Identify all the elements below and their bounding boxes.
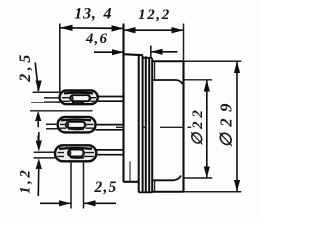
shell front face [151, 58, 153, 191]
pin 2 (middle contact, glass bead) [58, 117, 96, 132]
pin 3 right wire [96, 150, 123, 155]
cavity bore bottom line Ø22 [153, 176, 182, 181]
dimension 13,4 right arrowhead [112, 25, 124, 31]
pin 1 stub lower edge extension [31, 101, 54, 103]
flange washer line 1 [142, 56, 144, 193]
flange top edge [143, 57, 152, 59]
dimension 2,5 (left) lower arrow tail dashes [37, 121, 39, 140]
extension line at pin tip x=59.8 [59, 24, 61, 94]
cavity bore front wall bottom [154, 180, 156, 192]
svg-text:12,2: 12,2 [138, 7, 171, 23]
extension line pin1 top [33, 91, 60, 93]
insulator header rear edge [138, 55, 140, 192]
svg-text:4,6: 4,6 [85, 31, 108, 47]
dimension 12,2 left arrowhead [124, 27, 136, 33]
dimension 13,4 line [60, 27, 124, 30]
dimension 1,2 lower arrow pointing up [36, 158, 42, 169]
svg-text:∅22: ∅22 [190, 106, 206, 145]
svg-text:2,5: 2,5 [17, 51, 34, 83]
dimension 1,2 upper arrow pointing down [38, 132, 40, 141]
pin 3 left wire stub (pin tip) [34, 152, 55, 158]
dimension 12,2 right arrowhead [172, 27, 184, 33]
cavity bore front wall top [154, 62, 156, 81]
centerline axis [116, 126, 191, 128]
shell rear rim edge (also 12,2 extension) [183, 24, 185, 62]
pin 2 left wire stub [46, 124, 58, 129]
dimension 2,5 (bottom) extension lines from pin 3 bush [71, 161, 84, 209]
flange bottom edge [139, 191, 153, 193]
svg-text:4: 4 [103, 6, 112, 23]
flange washer line 2 [145, 56, 147, 192]
dimension 2,5 (bottom) left leader with right arrowhead [40, 202, 71, 204]
shell bottom edge (also Ø29 extension) [152, 191, 184, 193]
dimension Ø29 line [236, 61, 238, 191]
dimension 4,6 left leader with right arrowhead [94, 51, 124, 53]
insulator header top edge [124, 54, 144, 55]
Ø22 extension line top [184, 79, 213, 81]
Ø22 extension line bottom [184, 177, 213, 179]
extension line below pin1 [30, 110, 93, 112]
pin 1 left wire stub [44, 98, 60, 102]
pin 1 (top contact, glass bead) [60, 91, 98, 105]
shell top edge (also Ø29 extension) [152, 60, 184, 62]
pin 1 right wire [98, 97, 124, 102]
dimension 13,4 left arrowhead [60, 25, 73, 31]
dimension Ø22 line [206, 80, 208, 178]
dimension 4,6 right leader with left arrowhead [151, 51, 178, 53]
dimension 2,5 (left) upper arrow pointing down [35, 63, 38, 92]
cavity bore top line Ø22 [153, 80, 183, 84]
insulator header front face [122, 24, 124, 183]
insulator header inner step line [129, 162, 131, 182]
pin 3 (bottom contact, glass bead) [55, 145, 96, 161]
insulator header bottom edge [124, 181, 139, 183]
extension line for 4,6 at flange face [150, 46, 152, 59]
pin 2 right wire [96, 125, 124, 130]
svg-text:13,: 13, [74, 6, 96, 23]
dimension 12,2 line [124, 29, 184, 31]
dimension 2,5 (bottom) right leader with left arrowhead [84, 202, 116, 204]
flange washer line 3 [148, 58, 150, 193]
dimension 2,5 (left) lower arrow pointing up [35, 111, 41, 121]
svg-text:∅29: ∅29 [217, 97, 236, 147]
svg-text:1,2: 1,2 [18, 168, 34, 194]
svg-text:2,5: 2,5 [94, 179, 118, 196]
